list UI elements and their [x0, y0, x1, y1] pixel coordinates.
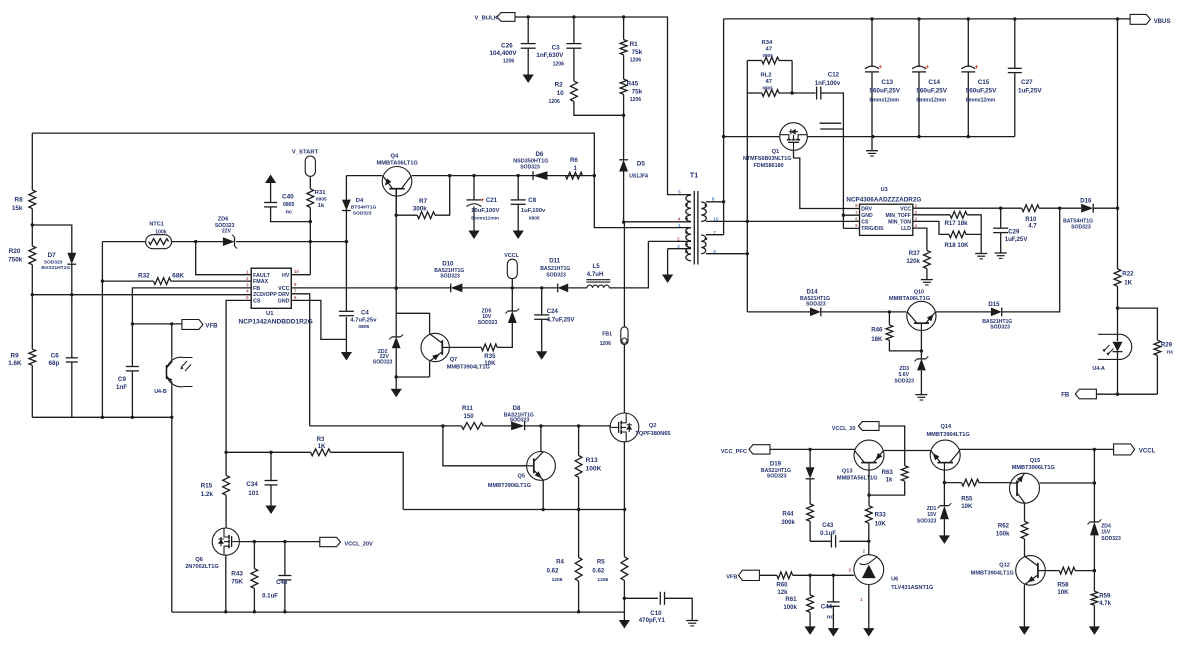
svg-text:1uF,100v: 1uF,100v	[521, 208, 546, 214]
svg-text:15V: 15V	[1101, 530, 1111, 536]
svg-text:1: 1	[860, 597, 863, 602]
capacitor C45	[262, 542, 291, 612]
wire pin8	[706, 201, 724, 203]
wire	[821, 93, 844, 129]
svg-text:SOD323: SOD323	[520, 164, 540, 170]
connector VCC_PFC	[721, 445, 770, 455]
wire	[1075, 569, 1096, 572]
wire pin10 CS	[706, 220, 860, 223]
wire Q15 emitter	[1039, 481, 1096, 484]
svg-text:R22: R22	[1122, 270, 1134, 277]
wire	[172, 240, 223, 243]
wire VCC rail	[291, 286, 450, 289]
wire	[920, 330, 922, 359]
wire	[70, 264, 73, 358]
svg-text:R5: R5	[597, 559, 605, 566]
wire	[868, 541, 870, 555]
wire pin9	[706, 253, 747, 255]
ground	[921, 280, 933, 285]
svg-text:100K: 100K	[586, 465, 602, 472]
svg-text:C3: C3	[552, 45, 561, 52]
svg-text:1206: 1206	[630, 58, 642, 64]
wire pin4	[624, 221, 691, 223]
transformer T1 primary winding	[686, 195, 691, 222]
wire HV pin	[291, 274, 310, 276]
wire gate Q6	[239, 540, 319, 543]
wire	[1096, 393, 1157, 395]
svg-text:15k: 15k	[12, 205, 23, 212]
svg-text:D11: D11	[549, 257, 560, 264]
zener ZD3	[894, 356, 928, 384]
svg-text:12k: 12k	[777, 589, 788, 596]
svg-text:0805: 0805	[763, 86, 774, 91]
wire	[131, 371, 133, 417]
svg-text:1nF: 1nF	[116, 384, 127, 391]
optocoupler U4-A	[1092, 334, 1131, 372]
diode D19	[761, 449, 815, 479]
diode D15	[982, 301, 1012, 331]
transistor Q5	[488, 452, 556, 489]
wire	[943, 519, 945, 535]
svg-text:10K: 10K	[961, 503, 973, 510]
svg-text:D19: D19	[770, 460, 782, 467]
capacitor C9	[116, 367, 139, 392]
svg-text:R58: R58	[1057, 581, 1069, 588]
ground	[939, 535, 950, 544]
wire CS pin	[226, 300, 251, 452]
svg-text:C40: C40	[282, 193, 294, 200]
svg-text:D7: D7	[48, 252, 57, 259]
wire bottom rail	[172, 610, 625, 613]
svg-text:2N7002LT1G: 2N7002LT1G	[185, 564, 219, 570]
wire	[309, 207, 312, 274]
svg-text:10K: 10K	[875, 521, 887, 528]
wire MIN_TOFF	[913, 214, 950, 216]
svg-text:C44: C44	[821, 603, 833, 610]
svg-text:1nF,100v: 1nF,100v	[815, 80, 841, 87]
svg-text:RL2: RL2	[761, 73, 773, 79]
svg-text:GND: GND	[278, 298, 290, 304]
wire	[270, 183, 272, 203]
svg-text:SOD323: SOD323	[806, 301, 826, 307]
resistor R13	[575, 426, 601, 477]
wire	[71, 362, 73, 417]
svg-text:1206: 1206	[503, 59, 515, 65]
wire HV rail	[32, 133, 691, 228]
svg-text:1uF,25V: 1uF,25V	[1005, 236, 1029, 243]
svg-text:DRV: DRV	[861, 206, 872, 212]
svg-text:C43: C43	[822, 522, 834, 529]
svg-text:VCCL: VCCL	[504, 253, 519, 259]
ground	[523, 75, 534, 84]
svg-text:68p: 68p	[49, 360, 60, 367]
svg-text:CS: CS	[253, 298, 261, 304]
wire	[979, 482, 1010, 484]
svg-text:D6: D6	[536, 151, 544, 158]
wire	[623, 581, 626, 612]
resistor R4	[547, 510, 582, 584]
resistor R17	[945, 211, 969, 227]
capacitor C43	[820, 522, 836, 548]
wire	[926, 269, 928, 280]
mosfet Q6 2N7002	[185, 528, 239, 570]
ground	[391, 377, 402, 397]
capacitor C29	[993, 208, 1028, 258]
wire	[271, 207, 311, 222]
svg-text:C15: C15	[978, 79, 990, 86]
wire	[31, 365, 33, 417]
svg-text:MIN_TON: MIN_TON	[888, 220, 911, 226]
svg-text:4.7: 4.7	[1028, 222, 1037, 229]
connector VCCL_20V 2	[832, 422, 879, 432]
wire	[759, 574, 777, 576]
svg-text:R3: R3	[317, 436, 325, 443]
svg-text:ZD6: ZD6	[218, 217, 228, 223]
svg-text:0805: 0805	[316, 196, 327, 202]
svg-text:R7: R7	[419, 198, 428, 205]
wire VFB	[132, 322, 182, 325]
svg-text:R34: R34	[762, 40, 773, 46]
wire	[1116, 286, 1119, 310]
svg-text:1.2k: 1.2k	[201, 491, 214, 498]
svg-text:Q1: Q1	[772, 149, 781, 155]
wire sec vert	[722, 19, 725, 235]
wire	[959, 448, 1114, 451]
svg-text:1uF,25V: 1uF,25V	[1018, 88, 1042, 95]
capacitor C34	[246, 452, 277, 514]
svg-text:MMBT3906LT1G: MMBT3906LT1G	[488, 483, 532, 489]
mosfet Q1	[743, 123, 807, 169]
wire	[225, 555, 227, 612]
wire GND pin	[291, 300, 346, 339]
svg-text:VCCL: VCCL	[1139, 448, 1156, 455]
svg-text:4.7uF,25V: 4.7uF,25V	[547, 317, 576, 324]
wire	[793, 574, 854, 577]
polarity dots	[685, 203, 707, 253]
transformer T1 sec winding B	[701, 235, 706, 254]
svg-text:560uF,25V: 560uF,25V	[966, 88, 997, 95]
svg-text:CS: CS	[861, 220, 869, 226]
wire	[395, 190, 398, 314]
svg-text:5.6V: 5.6V	[898, 372, 909, 378]
svg-text:SOD323: SOD323	[990, 325, 1010, 331]
wire	[622, 15, 625, 39]
capacitor C24	[534, 288, 575, 360]
svg-text:75K: 75K	[231, 579, 243, 586]
svg-text:D10: D10	[442, 260, 454, 267]
svg-text:10: 10	[294, 269, 299, 274]
capacitor C8	[511, 176, 546, 239]
transistor Q10	[889, 290, 936, 331]
svg-text:0.1uF: 0.1uF	[262, 593, 278, 600]
svg-text:C8: C8	[528, 197, 536, 204]
resistor R34	[747, 40, 792, 64]
svg-text:nc: nc	[286, 209, 293, 215]
wire	[746, 93, 749, 312]
wire	[1116, 352, 1119, 396]
svg-text:nc: nc	[827, 614, 834, 620]
wire	[623, 442, 625, 557]
svg-text:68K: 68K	[172, 273, 184, 280]
svg-text:MMBTA06LT1G: MMBTA06LT1G	[377, 160, 419, 166]
svg-text:5mmx11mm: 5mmx11mm	[471, 216, 500, 222]
svg-text:VCCL_20V: VCCL_20V	[344, 541, 373, 547]
wire	[622, 94, 625, 160]
svg-text:10: 10	[713, 216, 719, 221]
svg-text:Q4: Q4	[391, 153, 400, 159]
wire	[224, 451, 227, 476]
jumper bars	[820, 123, 844, 129]
wire	[525, 424, 611, 427]
svg-text:U6: U6	[891, 577, 898, 583]
svg-text:1K: 1K	[1124, 280, 1132, 287]
svg-text:MMBTA56LT1G: MMBTA56LT1G	[837, 476, 878, 482]
svg-text:100k: 100k	[783, 604, 797, 611]
svg-text:10uF,100V: 10uF,100V	[471, 208, 499, 214]
svg-text:0805: 0805	[763, 53, 774, 58]
resistor R43	[231, 542, 257, 589]
ground	[1019, 626, 1030, 635]
svg-text:BAS21HT1G: BAS21HT1G	[540, 266, 570, 272]
svg-text:750k: 750k	[8, 257, 23, 264]
resistor R46	[871, 312, 893, 343]
svg-text:47: 47	[766, 79, 773, 85]
svg-text:Q12: Q12	[999, 563, 1010, 569]
svg-text:1: 1	[678, 223, 681, 228]
wire	[573, 48, 575, 81]
wire mid rail	[403, 508, 626, 511]
wire	[32, 225, 72, 253]
svg-text:VFB: VFB	[726, 574, 737, 580]
svg-text:R55: R55	[961, 495, 973, 502]
svg-text:VFB: VFB	[205, 323, 218, 330]
svg-text:C21: C21	[486, 197, 498, 204]
svg-text:+: +	[481, 197, 485, 204]
wire	[842, 129, 844, 228]
svg-text:101: 101	[248, 490, 259, 497]
svg-text:FMAX: FMAX	[253, 279, 269, 285]
svg-text:SOD323: SOD323	[767, 474, 787, 480]
connector VBUS	[1130, 14, 1170, 25]
svg-text:8: 8	[712, 197, 715, 202]
resistor RL2	[747, 73, 779, 97]
wire	[936, 311, 991, 313]
svg-text:0805: 0805	[358, 324, 369, 330]
wire	[879, 426, 905, 466]
svg-text:D8: D8	[513, 405, 521, 412]
wire	[396, 313, 429, 334]
svg-text:VCCL_20: VCCL_20	[832, 426, 856, 432]
wire	[665, 598, 693, 620]
wire Q14 emitter	[943, 470, 946, 506]
svg-text:U4-B: U4-B	[154, 389, 167, 395]
svg-text:C14: C14	[928, 79, 940, 86]
svg-text:R62: R62	[998, 522, 1010, 529]
resistor R35	[449, 323, 512, 367]
wire	[236, 241, 346, 243]
wire	[527, 48, 529, 74]
resistor R29	[1154, 340, 1173, 355]
svg-text:22V: 22V	[222, 229, 232, 235]
svg-text:FDMS86180: FDMS86180	[754, 163, 784, 169]
ground	[863, 628, 874, 637]
diode D14	[800, 288, 830, 316]
wire	[1156, 355, 1158, 394]
wire	[346, 175, 382, 177]
wire	[253, 588, 255, 611]
transformer T1 core	[690, 172, 698, 265]
svg-text:8mmx12mm: 8mmx12mm	[916, 98, 946, 104]
diode D8	[504, 405, 534, 430]
svg-text:560uF,25V: 560uF,25V	[869, 88, 900, 95]
wire	[779, 91, 816, 94]
svg-text:VCC_PFC: VCC_PFC	[721, 449, 747, 455]
wire	[920, 370, 922, 394]
transistor Q13	[837, 440, 884, 482]
svg-text:FB: FB	[1061, 391, 1070, 398]
svg-text:L5: L5	[593, 263, 601, 270]
resistor R3	[226, 436, 330, 456]
ground	[805, 626, 816, 635]
svg-text:R32: R32	[138, 273, 150, 280]
svg-text:nc: nc	[1167, 350, 1174, 356]
svg-text:Q14: Q14	[941, 424, 952, 430]
shunt regulator U6 TLV431	[848, 549, 934, 602]
transistor Q14	[927, 424, 971, 470]
svg-text:NTMFS6B03NLT1G: NTMFS6B03NLT1G	[743, 156, 791, 162]
resistor R55	[961, 479, 979, 510]
connector V_BULK	[475, 13, 516, 22]
svg-text:U3: U3	[881, 187, 888, 193]
wire ZD4 vert	[1093, 449, 1095, 522]
wire	[623, 55, 625, 79]
svg-text:Q6: Q6	[195, 557, 204, 563]
wire	[809, 479, 811, 504]
wire	[31, 265, 34, 350]
wire	[101, 242, 104, 418]
wire FMAX	[171, 280, 251, 282]
ground	[915, 395, 927, 400]
wire	[1117, 308, 1119, 341]
svg-text:1.6K: 1.6K	[8, 360, 22, 367]
ground	[828, 628, 839, 637]
wire Q1 gate	[794, 150, 860, 208]
svg-text:FAULT: FAULT	[253, 273, 271, 279]
svg-text:75k: 75k	[632, 49, 643, 56]
svg-text:R44: R44	[782, 511, 794, 518]
wire FB pin	[131, 288, 252, 367]
wire	[609, 241, 648, 288]
svg-text:D16: D16	[1080, 198, 1092, 205]
svg-text:SOD323: SOD323	[1101, 536, 1121, 542]
resistor R32	[102, 273, 184, 285]
svg-text:SOD323: SOD323	[373, 359, 393, 365]
svg-text:R15: R15	[201, 483, 213, 490]
wire	[483, 425, 511, 427]
svg-text:1206: 1206	[597, 577, 608, 583]
wire Q5 base	[443, 426, 527, 466]
capacitor C40	[264, 193, 294, 215]
resistor R5	[592, 557, 627, 583]
svg-text:1206: 1206	[600, 341, 612, 347]
wire	[868, 495, 870, 506]
svg-text:C9: C9	[118, 376, 127, 383]
wire C43 row	[810, 540, 870, 543]
svg-text:SOD323: SOD323	[1071, 225, 1091, 231]
svg-text:R46: R46	[871, 327, 883, 334]
wire	[345, 317, 347, 352]
svg-text:C29: C29	[1008, 229, 1020, 236]
wire	[966, 234, 981, 253]
wire	[967, 215, 981, 235]
resistor R11	[462, 405, 484, 429]
wire ZCD	[32, 294, 251, 296]
capacitor C21	[467, 176, 500, 239]
resistor R63	[882, 466, 909, 484]
wire	[574, 101, 624, 115]
wire Q12 emitter	[1023, 585, 1025, 626]
svg-text:R29: R29	[1161, 341, 1173, 348]
ferrite bead FB1	[600, 222, 628, 347]
capacitor C44	[821, 575, 840, 628]
wire Q1 line	[724, 135, 875, 138]
svg-text:SOD323: SOD323	[894, 378, 914, 384]
svg-text:1k: 1k	[318, 203, 325, 209]
resistor R2	[549, 81, 578, 105]
svg-text:560uF,25V: 560uF,25V	[916, 88, 947, 95]
svg-text:BTS4HT1G: BTS4HT1G	[351, 204, 377, 210]
svg-text:TRIG/DIS: TRIG/DIS	[861, 226, 884, 232]
svg-text:10: 10	[557, 90, 565, 97]
transistor Q12	[971, 556, 1046, 586]
svg-text:1206: 1206	[630, 97, 642, 103]
resistor R44	[781, 504, 813, 526]
svg-text:V_BULK: V_BULK	[475, 15, 499, 21]
svg-text:470pF,Y1: 470pF,Y1	[639, 617, 666, 624]
svg-text:BAS21HT1G: BAS21HT1G	[41, 265, 70, 271]
svg-text:D4: D4	[356, 198, 364, 204]
wire DRV pin	[291, 294, 309, 426]
capacitor C14	[912, 19, 948, 137]
transistor Q15	[1010, 458, 1056, 503]
wire Q13-Q14 link	[884, 450, 931, 452]
wire	[511, 288, 513, 311]
resistor R37	[906, 250, 930, 268]
svg-text:1k: 1k	[886, 477, 893, 484]
svg-text:1206: 1206	[553, 62, 565, 68]
pin labels T1 left	[677, 190, 681, 249]
resistor R61	[783, 575, 813, 612]
svg-text:C26: C26	[501, 43, 513, 50]
svg-text:V_START: V_START	[292, 150, 319, 156]
wire VBUS vert	[1117, 19, 1119, 269]
resistor R59	[1091, 591, 1112, 607]
wire	[412, 174, 595, 177]
connector VFB 2	[726, 570, 759, 580]
wire	[1118, 308, 1158, 340]
wire sec gnd rail	[873, 135, 1015, 138]
diode D16	[1063, 198, 1093, 231]
connector VCCL_20V	[320, 537, 373, 547]
svg-text:47: 47	[766, 47, 773, 53]
resistor R6	[566, 157, 583, 179]
wire pin7	[706, 234, 724, 236]
resistor R33	[865, 506, 886, 528]
svg-text:R31: R31	[315, 190, 326, 196]
wire	[747, 61, 792, 94]
resistor R15	[201, 475, 230, 498]
svg-text:R37: R37	[909, 250, 921, 257]
